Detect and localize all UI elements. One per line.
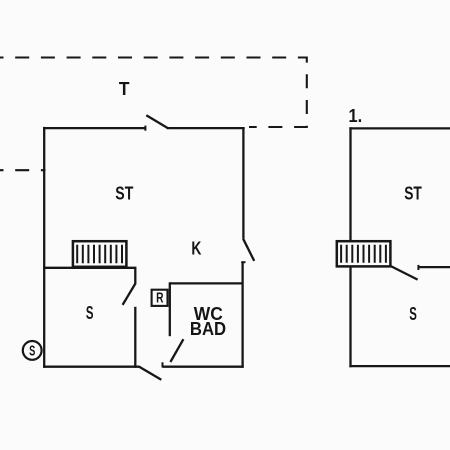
svg-text:1.: 1. xyxy=(349,106,363,126)
R box xyxy=(152,290,168,306)
room S lower wall xyxy=(134,307,136,368)
svg-text:R: R xyxy=(156,291,164,307)
stairs plan2 box xyxy=(337,241,391,266)
plan1 top wall left segment xyxy=(43,127,145,129)
svg-text:ST: ST xyxy=(115,183,133,203)
stairs plan1 box xyxy=(73,241,127,267)
plan2 inner wall xyxy=(418,266,450,268)
plan1 top door leaf xyxy=(146,115,168,128)
plan2 top wall xyxy=(349,127,450,129)
room S dividing wall xyxy=(43,267,135,269)
K door jamb tick xyxy=(241,261,245,263)
dashed boundary left xyxy=(0,169,46,171)
plan1 bottom wall right xyxy=(163,366,244,368)
K door leaf xyxy=(243,239,254,261)
room S door leaf xyxy=(123,283,136,305)
stairs plan1 treads xyxy=(77,245,122,263)
stairs plan2 treads xyxy=(341,245,386,263)
svg-text:T: T xyxy=(119,79,130,99)
plan1 right wall lower xyxy=(241,262,243,368)
plan2 door jamb tick xyxy=(417,265,419,270)
dashed terrace boundary top xyxy=(0,58,307,128)
plan2 door leaf xyxy=(391,266,418,280)
plan1 top wall right segment xyxy=(168,127,245,129)
svg-text:K: K xyxy=(191,238,201,258)
svg-text:S: S xyxy=(29,344,35,360)
circled S symbol xyxy=(23,341,42,360)
svg-text:BAD: BAD xyxy=(190,319,226,339)
svg-text:ST: ST xyxy=(404,184,422,204)
plan1 bottom wall left xyxy=(43,366,139,368)
svg-text:S: S xyxy=(86,303,94,323)
plan1 left wall xyxy=(43,127,45,368)
plan1 right wall upper xyxy=(242,127,244,239)
entrance door leaf xyxy=(139,367,162,380)
entrance jamb tick xyxy=(162,362,164,367)
WC door leaf xyxy=(170,339,183,362)
svg-text:S: S xyxy=(409,304,417,324)
plan2 bottom wall xyxy=(349,365,450,367)
plan1 top wall jamb tick xyxy=(144,126,146,131)
WC top wall xyxy=(170,282,243,284)
WC left wall xyxy=(169,282,171,336)
room S wall jog down xyxy=(134,267,136,284)
plan2 left wall xyxy=(349,127,351,367)
